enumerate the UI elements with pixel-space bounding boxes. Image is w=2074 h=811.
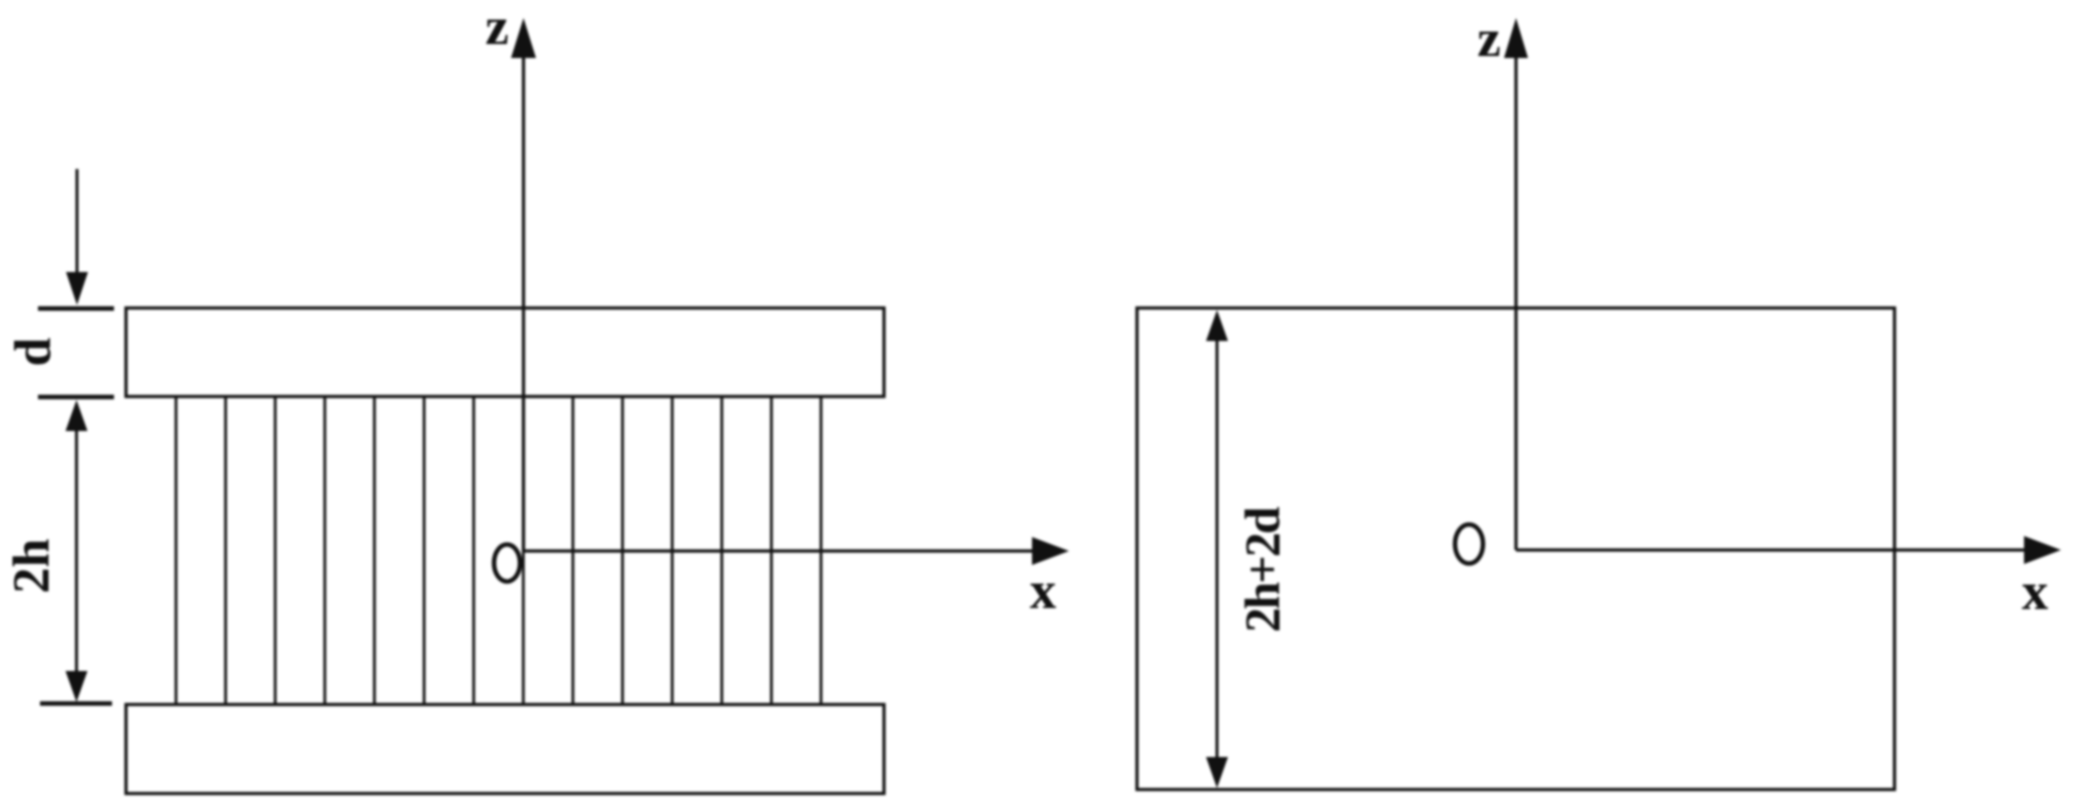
2h+2d dimension double arrow <box>1206 310 1228 788</box>
tick line at top of bottom face sheet <box>40 701 112 706</box>
x axis (left) <box>524 537 1070 565</box>
d dimension leader arrow (down arrow above top tick) <box>66 169 88 305</box>
label O origin (left) <box>494 545 520 582</box>
z axis (right) <box>1504 18 1528 550</box>
x axis (right) <box>1516 536 2061 564</box>
bottom face sheet rectangle <box>126 705 884 794</box>
z axis (left) <box>511 18 536 551</box>
2h dimension double arrow <box>66 400 88 702</box>
core web lines <box>176 397 821 705</box>
svg-text:z: z <box>1477 10 1501 68</box>
svg-text:d: d <box>5 337 62 366</box>
svg-text:2h+2d: 2h+2d <box>1234 506 1290 632</box>
top face sheet rectangle <box>126 308 884 397</box>
tick line at bottom of top face sheet <box>38 395 114 400</box>
equivalent plate rectangle <box>1137 308 1895 790</box>
svg-text:2h: 2h <box>4 538 61 593</box>
label O origin (right) <box>1455 525 1483 564</box>
svg-text:x: x <box>1030 562 1057 620</box>
tick line at top of top face sheet <box>38 306 114 311</box>
svg-text:z: z <box>485 0 509 56</box>
svg-text:x: x <box>2022 563 2049 621</box>
